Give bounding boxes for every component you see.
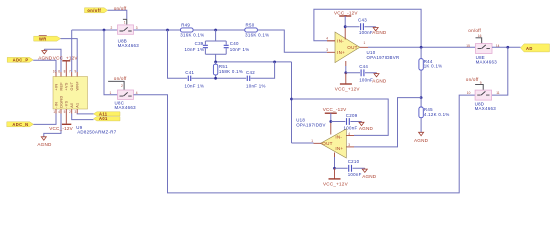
power VCC_-12V at U9 -VS <box>49 114 73 132</box>
wire U8C control <box>108 81 124 90</box>
svg-text:6: 6 <box>58 69 60 73</box>
ground AGND at C209 <box>359 122 374 132</box>
resistor R51 <box>213 62 243 78</box>
port ADC_N <box>7 122 34 127</box>
svg-text:10nF 1%: 10nF 1% <box>230 47 250 52</box>
svg-text:ADC_P: ADC_P <box>13 58 29 63</box>
svg-text:MAX4663: MAX4663 <box>118 43 140 48</box>
net label on/off (U8D) <box>466 77 479 82</box>
capacitor C40 <box>224 41 250 52</box>
svg-text:C40: C40 <box>230 41 239 46</box>
resistor R45 <box>419 98 450 133</box>
capacitor C44 <box>346 64 377 83</box>
wire feedback rail: U8C pin4 down, bottom rail, up to U8D pin10 <box>134 95 476 193</box>
U9 bottom pin stubs and pin numbers <box>53 109 77 114</box>
op-amp U10 OPA197 <box>326 27 368 66</box>
capacitor C41 <box>185 70 205 88</box>
svg-text:100nF: 100nF <box>359 30 373 35</box>
wire ADC_N to U9 -IN <box>33 114 56 125</box>
svg-text:4: 4 <box>58 110 60 114</box>
svg-text:AGND: AGND <box>37 142 52 147</box>
svg-text:A01: A01 <box>99 116 108 121</box>
svg-text:3: 3 <box>136 26 138 30</box>
svg-text:C210: C210 <box>348 159 360 164</box>
svg-text:C39: C39 <box>195 41 204 46</box>
ground AGND at C44 <box>372 73 387 84</box>
svg-text:10nF 1%: 10nF 1% <box>246 83 266 88</box>
svg-text:IN-: IN- <box>335 135 342 140</box>
svg-text:C43: C43 <box>358 18 367 23</box>
wire U9 OUT up to main line <box>71 30 73 72</box>
svg-text:1: 1 <box>311 139 313 143</box>
text U8E MAX4663 <box>476 55 498 64</box>
port ADC_P <box>7 57 33 62</box>
svg-text:AD: AD <box>526 46 533 51</box>
svg-text:VCC_+12V: VCC_+12V <box>335 86 361 91</box>
svg-text:on/off: on/off <box>114 6 127 11</box>
svg-text:AGND: AGND <box>414 138 429 143</box>
wire U8E pin14 to port AD <box>492 46 521 49</box>
svg-text:-VS: -VS <box>65 100 69 107</box>
wire U18 IN- feedback to OUT riser <box>292 99 389 135</box>
svg-text:-IN: -IN <box>54 102 58 108</box>
svg-text:on/off: on/off <box>87 8 101 13</box>
svg-text:1: 1 <box>53 110 55 114</box>
resistor R49 <box>180 22 204 37</box>
svg-text:MAX4663: MAX4663 <box>476 60 498 65</box>
switch U8C MAX4663 <box>110 90 138 99</box>
svg-text:MAX4663: MAX4663 <box>115 105 137 110</box>
svg-text:VCC_+12V: VCC_+12V <box>323 181 349 186</box>
svg-text:AGND: AGND <box>38 56 53 61</box>
svg-text:C41: C41 <box>185 70 194 75</box>
port AD <box>521 44 550 52</box>
ground AGND at U9 DGND <box>37 137 52 147</box>
svg-text:8: 8 <box>64 69 66 73</box>
svg-text:2: 2 <box>121 84 123 88</box>
wire on/off port to U8B control pin <box>108 10 127 25</box>
svg-text:IN+: IN+ <box>337 50 345 55</box>
text U9 designator <box>76 125 116 134</box>
svg-text:on/off: on/off <box>466 77 479 82</box>
svg-text:OUT: OUT <box>70 81 74 90</box>
resistor R44 <box>419 47 443 99</box>
power VCC_-12V at U18 <box>323 107 347 123</box>
wire branch down to U8C pin 1 <box>104 30 118 95</box>
switch U8E MAX4663 <box>466 44 499 54</box>
switch U8B MAX4663 <box>111 21 138 35</box>
svg-text:100nF: 100nF <box>348 172 362 177</box>
svg-text:AD8250ARMZ-R7: AD8250ARMZ-R7 <box>77 129 117 134</box>
svg-text:C44: C44 <box>359 64 368 69</box>
wire R49 to R50 <box>193 29 245 32</box>
svg-text:10nF 1%: 10nF 1% <box>185 47 205 52</box>
svg-text:on/off: on/off <box>468 28 481 33</box>
wire U9 REF to AGND <box>44 49 61 72</box>
svg-text:7: 7 <box>69 69 71 73</box>
wire U9 A0 to port A01 <box>72 114 94 120</box>
wire AD node down to U8D pin 11 <box>492 47 508 95</box>
svg-text:R49: R49 <box>181 22 190 27</box>
svg-text:ADC_N: ADC_N <box>12 122 28 127</box>
power VCC_+12V at U18 <box>323 168 349 186</box>
wire mid node y62 (R51 top / C42 / to U18 OUT riser) <box>214 61 291 64</box>
text U18 designator <box>296 117 326 127</box>
svg-text:+VS: +VS <box>65 82 69 90</box>
svg-text:OUT: OUT <box>347 45 357 50</box>
U9 top pin stubs and pin numbers <box>53 69 77 76</box>
wire WR# to U9 WR pin <box>61 39 78 72</box>
svg-text:A1: A1 <box>76 103 80 108</box>
wire U8E control <box>476 34 482 43</box>
svg-text:316K 0.1%: 316K 0.1% <box>245 33 269 38</box>
svg-text:A0: A0 <box>70 103 74 108</box>
svg-text:3: 3 <box>326 48 328 52</box>
svg-text:100nF: 100nF <box>359 77 373 82</box>
ground AGND at R45 <box>414 132 429 143</box>
svg-text:3: 3 <box>348 143 350 147</box>
svg-text:C209: C209 <box>346 113 358 118</box>
wire ADC_P to U9 +IN <box>33 60 56 72</box>
wire R50 to U10 IN+ <box>257 30 335 52</box>
wire bottom line y78 with C41/C42 <box>168 30 275 80</box>
svg-text:AGND: AGND <box>372 78 387 83</box>
switch U8D MAX4663 <box>467 90 500 100</box>
svg-text:VCC_-12V: VCC_-12V <box>323 107 347 112</box>
svg-text:9: 9 <box>75 69 77 73</box>
svg-text:11: 11 <box>496 91 500 95</box>
capacitor C209 <box>331 113 362 131</box>
net label on/off (U8B) <box>114 6 127 11</box>
svg-text:IN-: IN- <box>337 39 344 44</box>
wire notch bracket top <box>205 30 226 45</box>
svg-text:OPA197IDBV: OPA197IDBV <box>296 123 326 128</box>
ground AGND at C43 <box>372 27 387 36</box>
svg-text:4.12K 0.1%: 4.12K 0.1% <box>424 112 450 117</box>
svg-text:2: 2 <box>69 110 71 114</box>
svg-text:OPA197IDBVR: OPA197IDBVR <box>367 55 400 60</box>
wire divider mid to U18 IN+ <box>346 98 421 147</box>
svg-text:C42: C42 <box>246 70 255 75</box>
wire main line U9 OUT to U8B pin 2 <box>72 29 118 32</box>
svg-text:AGND: AGND <box>372 30 387 35</box>
wire U10 V+ node <box>344 66 347 74</box>
svg-text:VCC_+12V: VCC_+12V <box>53 56 79 61</box>
wire U18 V+ node <box>333 157 336 170</box>
port A01 <box>94 116 121 121</box>
svg-text:WR#: WR# <box>76 81 80 91</box>
svg-text:OUT: OUT <box>322 141 332 146</box>
svg-text:1: 1 <box>364 41 366 45</box>
svg-text:VCC_-12V: VCC_-12V <box>49 126 73 131</box>
svg-text:AGND: AGND <box>359 126 374 131</box>
text U10 designator <box>367 50 400 60</box>
wire riser to U18 OUT (junction with IN- feedback) <box>290 62 293 143</box>
svg-text:REF: REF <box>59 82 63 91</box>
svg-text:3: 3 <box>75 110 77 114</box>
port A11 <box>94 111 121 116</box>
capacitor C210 <box>335 159 365 177</box>
op-amp U18 OPA197 (mirrored) <box>311 122 354 159</box>
capacitor C42 <box>246 70 266 88</box>
svg-text:10: 10 <box>53 69 57 73</box>
svg-text:1: 1 <box>124 21 126 25</box>
wire U10 IN- feedback loop over top <box>314 9 421 47</box>
power VCC_-12V at U10 <box>334 11 358 28</box>
port on/off <box>85 8 108 13</box>
svg-text:9: 9 <box>480 81 482 85</box>
text U8C MAX4663 <box>115 100 137 110</box>
svg-text:AGND: AGND <box>362 174 377 179</box>
svg-text:2: 2 <box>111 26 113 30</box>
net label on/off (U8C) <box>114 76 127 81</box>
power VCC_+12V at U9 +VS <box>53 56 79 72</box>
resistor R50 <box>245 22 269 37</box>
svg-text:10: 10 <box>467 91 471 95</box>
capacitor C43 <box>345 18 376 35</box>
svg-text:4: 4 <box>326 37 328 41</box>
svg-text:158K 0.1%: 158K 0.1% <box>219 69 243 74</box>
ground AGND at U9 REF <box>38 49 53 60</box>
text U8B MAX4663 <box>118 39 140 49</box>
svg-text:10nF 1%: 10nF 1% <box>185 83 205 88</box>
port WR# <box>34 36 61 42</box>
svg-text:4: 4 <box>348 132 350 136</box>
wire U8D control <box>475 81 483 90</box>
wire U8B pin3 to R49 <box>134 29 181 32</box>
wire U9 DGND to ground <box>44 114 61 137</box>
svg-text:1: 1 <box>110 91 112 95</box>
svg-text:+IN: +IN <box>54 84 58 91</box>
wire U9 A1 to port A11 <box>77 113 93 115</box>
svg-text:IN+: IN+ <box>335 146 343 151</box>
svg-text:16: 16 <box>478 34 482 38</box>
wire U18 OUT to riser <box>292 142 314 144</box>
capacitor C39 <box>185 41 208 52</box>
svg-text:on/off: on/off <box>114 76 127 81</box>
svg-text:1K 0.1%: 1K 0.1% <box>424 64 443 69</box>
wire U10 OUT to U8E <box>368 46 475 49</box>
IC U9 AD8250 body <box>53 77 88 110</box>
svg-text:MAX4663: MAX4663 <box>475 106 497 111</box>
svg-text:5: 5 <box>64 110 66 114</box>
svg-text:316K 0.1%: 316K 0.1% <box>180 33 204 38</box>
svg-text:R50: R50 <box>246 22 255 27</box>
svg-text:WR: WR <box>39 36 47 41</box>
svg-text:DGND: DGND <box>59 96 63 108</box>
power VCC_+12V at U10 <box>335 73 361 92</box>
net label on/off (U8E) <box>468 28 481 33</box>
wire notch bracket bottom <box>205 48 226 62</box>
text U8D MAX4663 <box>475 101 497 111</box>
svg-text:15: 15 <box>466 44 470 48</box>
ground AGND at C210 <box>362 168 377 179</box>
svg-text:100nF: 100nF <box>344 126 358 131</box>
svg-text:VCC_-12V: VCC_-12V <box>334 11 358 16</box>
